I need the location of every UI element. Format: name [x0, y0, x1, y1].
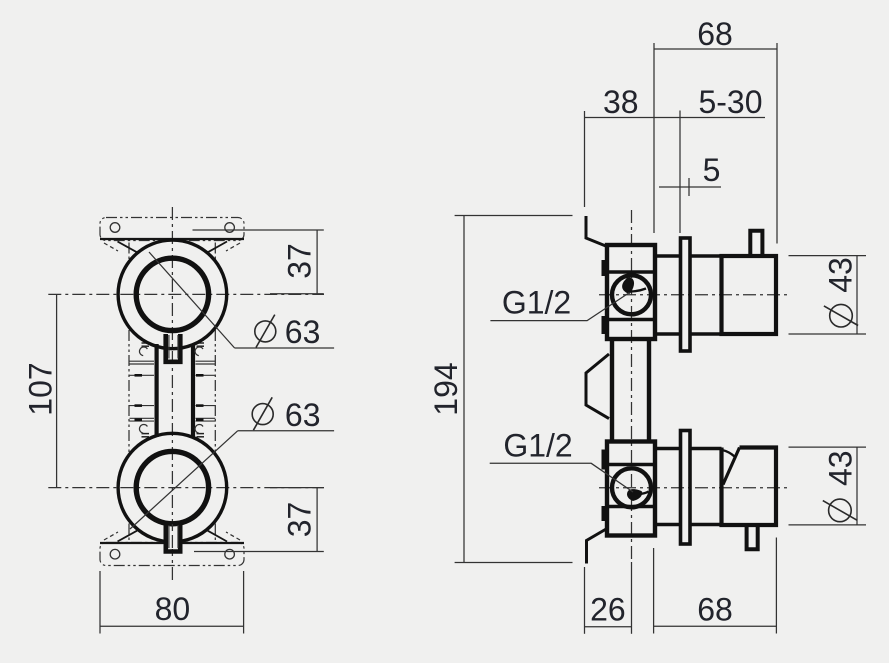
bracket hole arc lower-left: [139, 425, 147, 434]
diameter leader lower Ø63 underline: [238, 430, 334, 432]
dimension 68 bottom extension right: [775, 538, 777, 634]
dimension 26 extension left: [584, 567, 586, 634]
lower lug slot left: [168, 525, 170, 548]
dimension 194 line: [463, 216, 465, 563]
diameter symbol upper: [255, 321, 276, 342]
lower valve block: [607, 442, 655, 536]
lower block nub 1: [602, 450, 608, 470]
upper block divider bottom: [607, 318, 655, 322]
dimension 107 line: [56, 294, 58, 487]
svg-text:194: 194: [428, 362, 464, 415]
lower block nub 2: [602, 506, 608, 521]
connecting pipe wall right: [647, 339, 651, 442]
diameter symbol for Ø43 upper (rotated): [824, 304, 858, 327]
dimension 68 top extension left: [653, 43, 655, 233]
G1/2 lower leader: [490, 463, 633, 492]
dimension 5 line: [659, 186, 721, 188]
lower head chamfer line: [723, 448, 740, 485]
bracket hole arc upper-left: [139, 347, 147, 356]
upper sleeve top line: [655, 254, 681, 258]
lower block divider top: [607, 463, 655, 467]
dimension 68 bottom extension left: [653, 548, 655, 634]
lower port inner circle: [136, 451, 208, 523]
dimension 80 line: [100, 625, 244, 627]
diameter leader upper Ø63 diagonal: [149, 252, 235, 348]
vertical centerline side view: [631, 210, 633, 562]
dimension Ø43 lower line: [856, 447, 858, 525]
lower port slot mark: [627, 489, 642, 501]
upper stop tab: [750, 231, 762, 256]
diameter symbol lower: [252, 404, 273, 425]
screw hole top-right: [225, 223, 235, 233]
upper port outer circle Ø63: [118, 240, 227, 349]
svg-text:43: 43: [823, 257, 859, 293]
bracket hole arc lower-right: [195, 425, 203, 434]
lower port outer circle Ø63: [118, 433, 227, 542]
upper cartridge head: [722, 256, 777, 334]
horizontal centerline upper port: [48, 293, 324, 295]
mounting plate bottom solid upper edge: [100, 542, 244, 544]
gusset wing top-left solid: [118, 242, 138, 253]
lower cartridge head with chamfer: [722, 448, 777, 526]
dimension 38 / 5-30 line: [585, 117, 766, 119]
dimension 80 extension left: [99, 571, 101, 634]
lower wall flange: [681, 431, 691, 545]
lower block divider bottom: [607, 505, 655, 509]
screw hole top-left: [110, 223, 120, 233]
gusset wing top-right solid: [208, 242, 227, 253]
svg-text:68: 68: [697, 592, 733, 628]
body tube wall left: [155, 344, 159, 437]
svg-text:5-30: 5-30: [698, 84, 762, 120]
screw hole bottom-left: [110, 549, 120, 559]
centerline through lower lug slot: [171, 524, 173, 550]
gusset wing bottom-right phantom: [226, 532, 240, 540]
dimension 68 top line: [654, 48, 777, 50]
dimension Ø43 upper extension top: [789, 255, 867, 257]
bracket detail row D: [130, 418, 216, 421]
dimension 37 top centerline extension: [270, 293, 324, 295]
dimension 37 top leader from hole: [193, 229, 324, 231]
bracket detail row A: [130, 361, 216, 364]
dimension 5 tick: [688, 178, 690, 196]
svg-text:37: 37: [282, 243, 318, 279]
lower port circle side view: [612, 468, 651, 507]
upper lug outer: [166, 334, 181, 362]
dimension Ø43 lower extension top: [789, 446, 867, 448]
gusset wing bottom-right solid: [208, 531, 227, 542]
svg-text:68: 68: [697, 16, 733, 52]
dimension 37 top line: [316, 230, 318, 294]
svg-text:63: 63: [285, 397, 321, 433]
lower lug slot fill: [168, 527, 178, 549]
lower head corner arc: [722, 450, 735, 457]
mounting plate top solid lower edge: [100, 238, 244, 240]
dimension 80 extension right: [243, 571, 245, 634]
upper block nub 1: [602, 260, 608, 276]
upper port inner circle: [136, 258, 208, 330]
svg-text:107: 107: [23, 362, 59, 415]
dimension 37 bottom line: [316, 488, 318, 552]
dimension 194 extension bottom: [455, 562, 573, 564]
dimension 5 extension (flange back): [679, 111, 681, 234]
horizontal centerline lower port: [48, 487, 324, 489]
connecting pipe wall left: [610, 339, 614, 442]
phantom vertical bracket edge right: [214, 243, 216, 260]
upper wall flange: [681, 238, 691, 351]
svg-text:63: 63: [285, 314, 321, 350]
svg-text:G1/2: G1/2: [503, 427, 572, 463]
bracket bottom profile: [587, 529, 608, 564]
lower lug outer: [166, 524, 180, 552]
mounting plate top (phantom outline): [100, 218, 244, 241]
dimension 68 bottom line: [654, 625, 777, 627]
diameter leader upper Ø63 underline: [235, 347, 335, 349]
horizontal centerline lower valve: [599, 487, 789, 489]
dimension 38 extension (wall): [584, 111, 586, 207]
lower sleeve bottom line: [655, 523, 681, 527]
svg-text:26: 26: [590, 592, 626, 628]
dimension 68 top extension right: [776, 43, 778, 244]
gusset wing bottom-left phantom: [104, 532, 118, 540]
dimension 37 bottom centerline extension: [270, 487, 324, 489]
dimension 37 bottom leader from hole: [194, 551, 324, 553]
upper port circle side view: [612, 275, 651, 314]
upper block nub 2: [602, 316, 608, 334]
diameter symbol for Ø43 lower (rotated): [823, 499, 857, 522]
mounting plate bottom (phantom outline): [100, 543, 244, 566]
horizontal centerline upper valve: [599, 294, 789, 296]
upper block divider top: [607, 270, 655, 274]
dimension Ø43 upper extension bottom: [789, 333, 867, 335]
bracket hole arc upper-right: [195, 347, 203, 356]
lower lug slot right: [177, 525, 179, 548]
phantom vertical bracket edge left: [128, 243, 130, 260]
svg-text:37: 37: [282, 502, 318, 538]
svg-text:G1/2: G1/2: [502, 285, 571, 321]
dimension 194 extension top: [455, 215, 573, 217]
bracket tick marks upper: [142, 343, 205, 346]
vertical centerline front view: [171, 207, 173, 583]
screw hole bottom-right: [225, 549, 235, 559]
dimension Ø43 lower extension bottom: [789, 524, 867, 526]
G1/2 upper leader: [490, 293, 629, 321]
svg-text:38: 38: [603, 84, 639, 120]
upper port slot mark: [622, 277, 634, 294]
dimension 26 line: [585, 626, 632, 628]
gusset wing top-right phantom: [226, 243, 240, 251]
bracket detail row C: [130, 405, 216, 407]
diameter leader lower Ø63 diagonal: [130, 431, 238, 529]
bracket tick marks lower: [142, 434, 205, 437]
svg-text:43: 43: [823, 450, 859, 486]
gusset wing bottom-left solid: [118, 531, 138, 542]
bracket top profile: [586, 216, 607, 247]
upper lug slot left: [168, 335, 170, 359]
gusset wing top-left phantom: [104, 243, 118, 251]
bracket detail row B: [130, 374, 216, 376]
dimension Ø43 upper line: [856, 256, 858, 334]
lower sleeve top line: [655, 447, 681, 451]
lower stop tab: [747, 525, 758, 550]
bracket middle bump: [586, 354, 609, 419]
svg-text:5: 5: [703, 152, 721, 188]
svg-text:80: 80: [155, 591, 191, 627]
body tube wall right: [191, 344, 195, 437]
upper sleeve bottom line: [655, 332, 681, 336]
upper lug slot right: [177, 335, 179, 359]
upper valve block: [607, 245, 655, 339]
